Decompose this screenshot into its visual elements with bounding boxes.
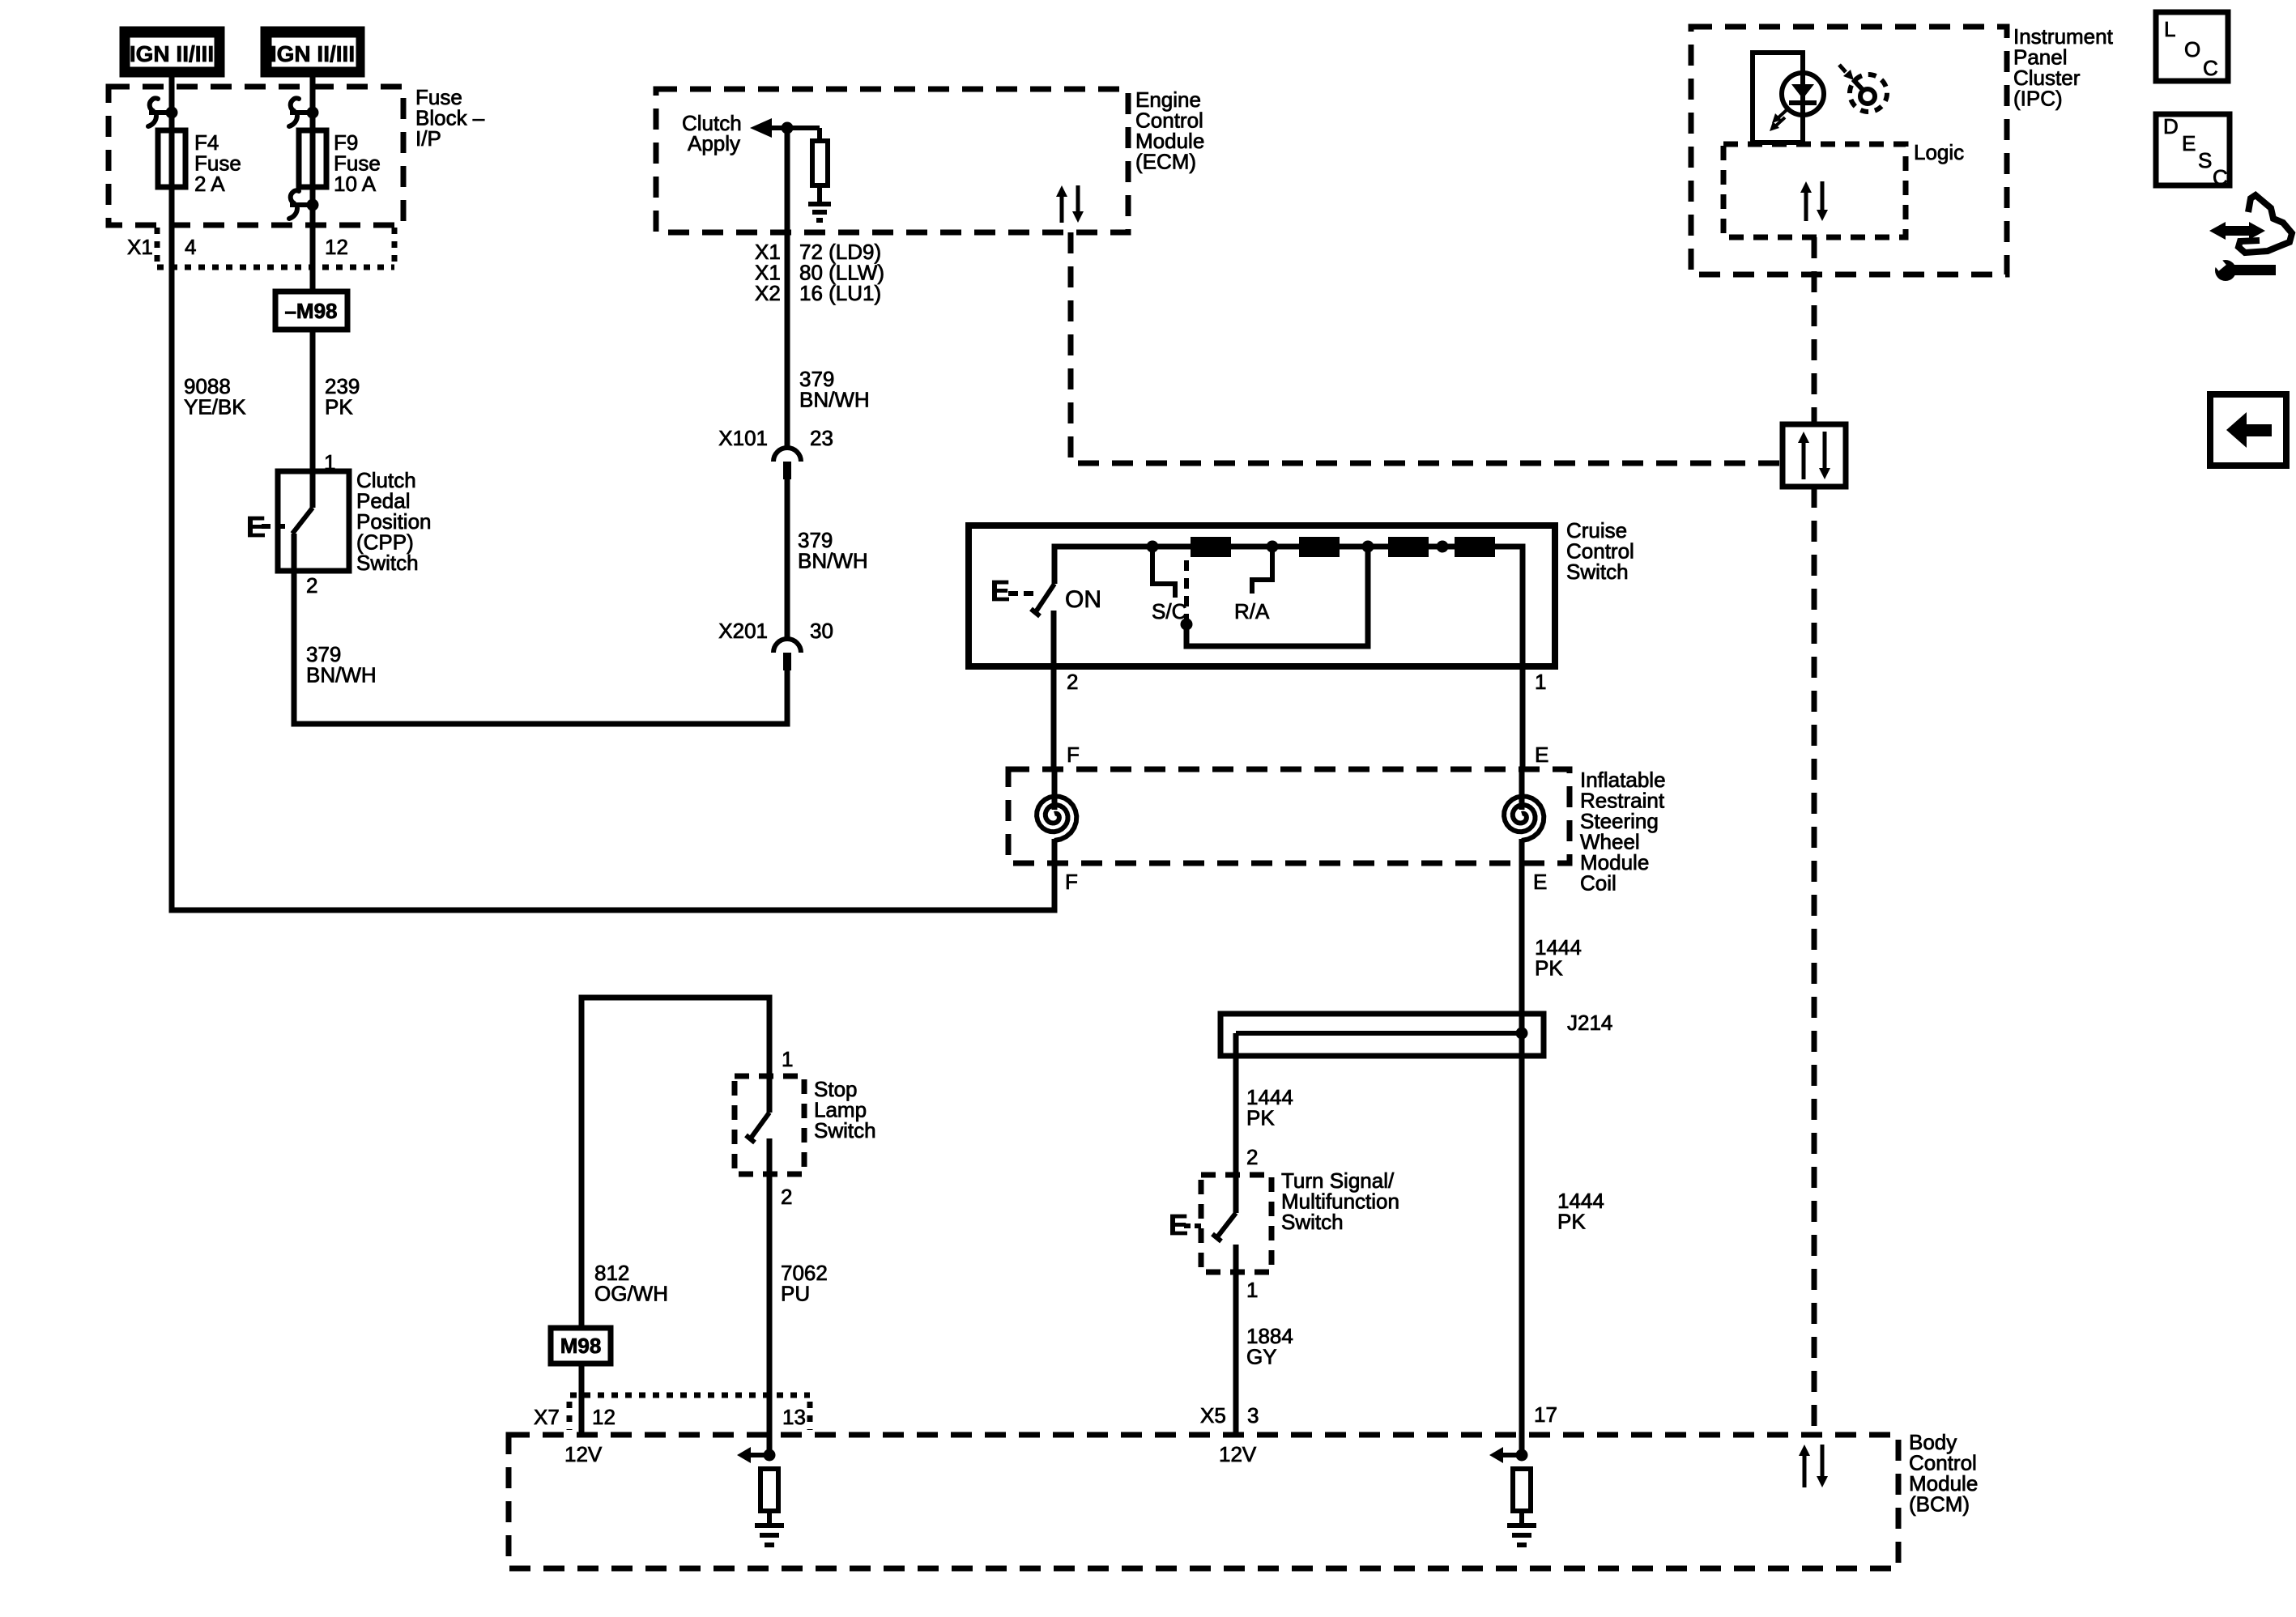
svg-text:X5: X5: [1200, 1403, 1226, 1428]
wire: stop lamp switch pin 2 to BCM pin 13: [767, 1138, 773, 1455]
svg-text:1: 1: [1535, 670, 1546, 694]
S/C tap stub: [1152, 547, 1175, 598]
inline connector X101 pin 23: [773, 448, 801, 462]
fuse block bus junction (right top): [289, 98, 319, 126]
svg-text:12: 12: [325, 235, 348, 259]
BCM pull-down resistor (pin 13): [760, 1469, 778, 1511]
svg-text:C: C: [2213, 165, 2228, 189]
svg-text:E: E: [1535, 743, 1548, 767]
svg-text:O: O: [2184, 37, 2200, 62]
wire: set/coast loop to resume junction: [1186, 549, 1368, 646]
svg-text:12: 12: [592, 1405, 616, 1429]
icon box with left arrow: [2210, 394, 2286, 466]
icon box D E S C: [2156, 114, 2230, 189]
coil (clockspring) right winding: [1519, 769, 1525, 810]
node: R/A tap: [1267, 541, 1279, 553]
ground (BCM pin 13): [755, 1523, 784, 1528]
svg-text:X201: X201: [718, 619, 768, 643]
wire: CPP pin 2 down and across to X201: [294, 534, 787, 724]
Body Control Module (BCM) dashed box: [509, 1435, 1898, 1568]
power label IGN II/III (left feed): [120, 27, 224, 77]
Stop Lamp Switch dashed box: [735, 1076, 804, 1174]
ground (ECM internal): [808, 202, 831, 206]
svg-text:Apply: Apply: [688, 131, 740, 155]
svg-text:Logic: Logic: [1914, 140, 1964, 164]
svg-text:J214: J214: [1567, 1011, 1612, 1035]
svg-text:12V: 12V: [1219, 1442, 1257, 1466]
dashed set/coast contact drop: [1184, 560, 1189, 620]
icon box L O C: [2156, 12, 2228, 81]
wire: clutch apply to X101: [785, 128, 790, 448]
svg-text:1: 1: [782, 1047, 793, 1071]
fuse block bus junction (right bottom): [289, 190, 319, 219]
svg-text:CruiseControlSwitch: CruiseControlSwitch: [1566, 518, 1634, 584]
svg-text:F: F: [1067, 743, 1080, 767]
IPC speedometer gauge icon: [1839, 65, 1887, 112]
inline connector X201 pin 30: [773, 639, 801, 653]
stop lamp switch blade: [746, 1113, 769, 1143]
node: set/coast contact: [1181, 619, 1193, 631]
svg-text:23: 23: [810, 426, 833, 450]
svg-text:X1: X1: [127, 235, 153, 259]
resistor block 3 (cruise switch): [1388, 537, 1429, 557]
svg-text:72 (LD9)80 (LLW)16 (LU1): 72 (LD9)80 (LLW)16 (LU1): [799, 240, 884, 305]
svg-text:ON: ON: [1065, 586, 1101, 613]
svg-text:2: 2: [1067, 670, 1078, 694]
R/A tap stub: [1252, 547, 1272, 594]
svg-text:17: 17: [1534, 1402, 1557, 1427]
splice pack J214: [1220, 1014, 1544, 1056]
svg-text:2: 2: [1246, 1145, 1258, 1169]
resistor block 1 (cruise switch): [1191, 537, 1231, 557]
svg-text:IGN II/III: IGN II/III: [130, 41, 214, 66]
resistor block 2 (cruise switch): [1299, 537, 1340, 557]
node: S/C tap: [1147, 541, 1159, 553]
wire: coil E lower pin down through J214 to BCM pin 17: [1519, 839, 1525, 1455]
splice M98: [551, 1328, 611, 1364]
fuse F9 10A: [299, 130, 326, 187]
wire: resistor to ground: [817, 185, 822, 204]
svg-text:X1X1X2: X1X1X2: [755, 240, 781, 305]
BCM pull-down resistor (pin 17): [1513, 1469, 1531, 1511]
svg-text:3: 3: [1247, 1403, 1259, 1428]
ground reference E at turn signal switch: [1169, 1208, 1201, 1241]
wire: X101 to X201: [785, 479, 790, 639]
ground reference E at cruise switch: [990, 574, 1033, 607]
connector X1 dotted outline: [157, 228, 394, 267]
wire: right feed from IGN II/III to fuse F9 / M98: [310, 77, 316, 291]
fuse block bus junction (left): [148, 98, 178, 126]
svg-text:F: F: [1065, 870, 1078, 894]
splice -M98: [275, 291, 347, 330]
turn signal switch blade: [1212, 1213, 1236, 1241]
wire: M98 to BCM X7-12: [579, 1364, 585, 1435]
svg-text:13: 13: [782, 1405, 806, 1429]
CPP switch blade: [292, 508, 313, 534]
dashed serial data net: gateway to BCM: [1812, 487, 1817, 1435]
IPC indicator LED: [1782, 73, 1824, 115]
svg-text:1: 1: [1246, 1278, 1258, 1302]
svg-text:4: 4: [185, 235, 196, 259]
resistor block 4 (cruise switch): [1455, 537, 1495, 557]
svg-text:E: E: [1533, 870, 1547, 894]
gateway serial data arrows: [1802, 441, 1806, 479]
wire: turn signal switch pin 1 to BCM X5-3: [1233, 1245, 1239, 1435]
svg-text:M98: M98: [560, 1334, 602, 1358]
resistor (ECM internal): [812, 141, 828, 185]
coil (clockspring) left winding: [1052, 769, 1058, 810]
ground (BCM pin 17): [1507, 1523, 1536, 1528]
wire: J214 to turn signal switch pin 2: [1233, 1033, 1239, 1175]
wire: left feed from IGN II/III through fuse F4 down and across to coil F pin: [172, 77, 1054, 910]
svg-text:E: E: [2182, 131, 2196, 155]
svg-text:E: E: [990, 574, 1010, 607]
svg-text:R/A: R/A: [1234, 599, 1270, 623]
Cruise Control Switch box: [969, 526, 1555, 666]
svg-text:IGN II/III: IGN II/III: [270, 41, 355, 66]
ECM clutch apply signal arrow: [750, 118, 772, 138]
Fuse Block - I/P dashed box: [109, 87, 403, 225]
IPC telltale lamp housing: [1753, 53, 1803, 143]
svg-text:X101: X101: [718, 426, 768, 450]
BCM cruise input arrow: [1489, 1447, 1503, 1463]
J214 internal bus: [1236, 1031, 1522, 1036]
svg-text:S: S: [2198, 148, 2212, 172]
Engine Control Module (ECM) dashed box: [656, 89, 1128, 232]
Turn Signal/Multifunction Switch dashed box: [1201, 1175, 1272, 1272]
BCM serial data arrows: [1803, 1454, 1807, 1487]
cruise switch top wire from blade pivot across to pin 1: [1054, 547, 1523, 769]
IPC Logic dashed box: [1723, 144, 1906, 237]
BCM stop lamp input arrow: [737, 1447, 751, 1463]
serial data gateway box: [1783, 424, 1846, 487]
turn signal switch contact wire: [1233, 1175, 1239, 1213]
wire: ECM pull-up branch: [817, 128, 822, 141]
node: resume loop junction: [1362, 541, 1374, 553]
ground reference E at CPP switch: [246, 510, 285, 543]
node: clutch apply junction: [782, 122, 794, 134]
wire: stop lamp feed from M98 splice up and over to switch pin 1: [581, 998, 769, 1328]
svg-text:–M98: –M98: [284, 299, 337, 323]
diagnostic tool icon (double arrow, connector outline, wrench): [2209, 195, 2292, 281]
svg-text:2: 2: [306, 573, 317, 598]
svg-text:30: 30: [810, 619, 833, 643]
connector X7 dotted outline: [569, 1395, 810, 1430]
svg-text:X7: X7: [534, 1405, 560, 1429]
ECM serial data arrows: [1060, 195, 1064, 223]
svg-text:S/C: S/C: [1152, 599, 1186, 623]
Clutch Pedal Position (CPP) Switch box: [278, 471, 349, 571]
fuse F4 2A: [158, 130, 185, 187]
IPC logic serial data arrows: [1804, 191, 1808, 221]
Inflatable Restraint Steering Wheel Module Coil dashed box: [1008, 769, 1570, 863]
cruise ON switch blade: [1031, 584, 1054, 616]
svg-text:D: D: [2163, 114, 2179, 138]
power label IGN II/III (right feed): [261, 27, 364, 77]
cruise switch lower contact to pin 2: [1051, 611, 1057, 769]
dashed serial data net: IPC logic to gateway box: [1812, 237, 1817, 424]
svg-text:EngineControlModule(ECM): EngineControlModule(ECM): [1135, 87, 1204, 174]
svg-text:C: C: [2203, 56, 2218, 80]
node: divider junction: [1437, 541, 1449, 553]
svg-text:2: 2: [781, 1185, 792, 1209]
svg-text:L: L: [2164, 17, 2175, 41]
svg-text:12V: 12V: [564, 1442, 603, 1466]
wire: M98 to CPP switch pin 1: [310, 330, 316, 474]
CPP switch contact wire from pin 1: [310, 471, 316, 508]
dashed serial data net: ECM to gateway box: [1071, 232, 1783, 463]
Instrument Panel Cluster (IPC) dashed box: [1691, 27, 2007, 274]
node: J214 junction: [1516, 1028, 1528, 1040]
